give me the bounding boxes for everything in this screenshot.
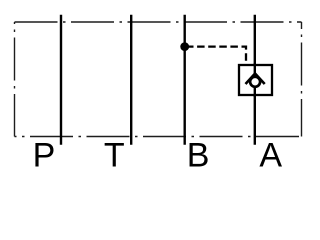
svg-text:T: T [104,137,125,173]
enclosure left border (dash-dot) [14,22,16,137]
enclosure top border (dash-dot) [15,21,302,23]
port line A [254,15,256,145]
svg-text:P: P [33,137,56,173]
port line T [130,15,132,145]
check valve seat (chevron) [246,74,265,85]
pilot line (dashed) from B node to check valve [189,47,247,65]
port line B [183,15,185,145]
port line P [60,15,62,145]
svg-text:B: B [187,137,210,173]
enclosure right border (dash-dot) [301,22,303,137]
check valve ball [250,77,260,87]
A line segment through box [254,63,256,97]
svg-text:A: A [259,137,282,173]
check valve box [239,65,272,95]
enclosure bottom border (dash-dot) [15,136,302,138]
junction node on B [180,42,189,51]
